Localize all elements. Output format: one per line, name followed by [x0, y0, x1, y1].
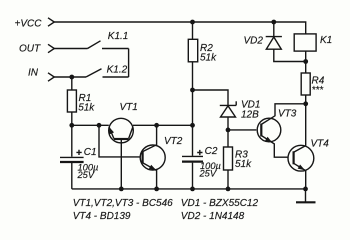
resistor R4 — [305, 62, 307, 74]
wire VT1 emitter to VT2 base — [99, 125, 140, 157]
svg-text:VT1,VT2,VT3 - BC546: VT1,VT2,VT3 - BC546 — [73, 198, 173, 209]
svg-text:VD2 - 1N4148: VD2 - 1N4148 — [181, 211, 245, 222]
svg-text:51k: 51k — [200, 52, 217, 63]
svg-text:K1.1: K1.1 — [108, 31, 129, 42]
svg-text:VT4: VT4 — [311, 138, 330, 149]
junction IN/R1 — [69, 75, 74, 80]
wire OUT to K1.1 — [54, 48, 87, 50]
svg-text:IN: IN — [28, 68, 39, 79]
capacitor C2 — [192, 125, 194, 156]
label C1 plus — [76, 150, 81, 155]
svg-text:25V: 25V — [77, 170, 95, 180]
zener diode VD1 — [220, 104, 236, 106]
ground — [305, 189, 307, 202]
wire R4 to VT4 collector — [305, 104, 307, 146]
wire VD1 to VT3 base — [228, 129, 256, 131]
svg-text:K1: K1 — [320, 35, 332, 46]
resistor R3 — [227, 130, 229, 147]
junction R3 / bottom rail — [226, 187, 231, 192]
junction R2/C2/rail — [190, 123, 195, 128]
svg-text:OUT: OUT — [19, 44, 41, 55]
svg-text:VD2: VD2 — [244, 35, 264, 46]
svg-text:+VCC: +VCC — [15, 19, 43, 30]
junction VT2 collector — [154, 123, 159, 128]
svg-text:VT3: VT3 — [278, 109, 297, 120]
junction C2 / bottom rail — [190, 187, 195, 192]
svg-text:K1.2: K1.2 — [107, 65, 128, 76]
wire K1.2 right — [103, 76, 129, 78]
junction R4/VT3 collector — [303, 101, 308, 106]
node OUT connector — [48, 44, 54, 52]
junction VT4 emitter / bottom rail — [303, 187, 308, 192]
capacitor C1 — [71, 125, 73, 156]
resistor R1 — [71, 77, 73, 90]
diode VD2 — [271, 20, 276, 25]
resistor R2 — [190, 20, 195, 25]
wire IN — [54, 76, 86, 78]
svg-text:VD1 - BZX55C12: VD1 - BZX55C12 — [181, 198, 259, 209]
relay coil K1 — [294, 34, 316, 51]
switch K1.1 arm — [88, 41, 101, 49]
svg-text:51k: 51k — [235, 159, 252, 170]
junction VT2 emitter / bottom rail — [154, 187, 159, 192]
junction VT1 emitter node — [97, 123, 102, 128]
junction R2/VD1 — [190, 88, 195, 93]
wire bottom rail — [72, 188, 306, 190]
svg-text:VT2: VT2 — [164, 136, 183, 147]
svg-text:C1: C1 — [84, 147, 97, 158]
transistor VT3 — [257, 118, 281, 142]
svg-text:VT4 - BD139: VT4 - BD139 — [73, 211, 131, 222]
svg-text:25V: 25V — [199, 169, 217, 179]
switch K1.2 arm — [86, 69, 102, 77]
node IN connector — [48, 73, 54, 81]
node +VCC connector — [48, 18, 54, 26]
label C2 plus — [197, 150, 202, 155]
svg-text:***: *** — [312, 85, 325, 96]
svg-text:51k: 51k — [78, 102, 95, 113]
transistor VT4 — [288, 145, 314, 171]
svg-text:C2: C2 — [205, 146, 218, 157]
wire K1.1-K1.2 vertical — [128, 49, 130, 78]
transistor VT2 — [140, 145, 165, 170]
wire collector rail — [133, 124, 193, 126]
svg-text:VT1: VT1 — [120, 102, 138, 113]
wire K1.1 right — [102, 48, 129, 50]
junction K1/VD2/R4 — [303, 59, 308, 64]
junction VT1 base / bottom rail — [119, 187, 124, 192]
transistor VT1 — [109, 118, 134, 143]
wire left rail — [72, 124, 109, 126]
wire R2 to VD1 — [193, 90, 229, 105]
svg-text:12В: 12В — [241, 109, 259, 120]
junction VD1/R3/VT3 — [226, 127, 231, 132]
junction R1/C1/rail — [69, 123, 74, 128]
wire +VCC top rail — [54, 22, 305, 34]
